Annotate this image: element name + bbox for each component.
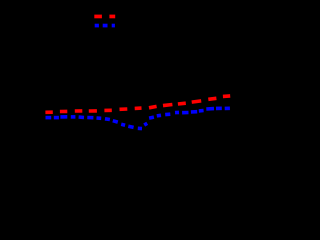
blue series dash 23 xyxy=(225,107,230,111)
red series dash 4 xyxy=(89,109,97,113)
legend: red series sample line xyxy=(94,15,102,19)
red series dash 12 xyxy=(208,98,216,99)
blue series dash 21 xyxy=(206,107,214,111)
blue series dash 13 xyxy=(144,123,147,125)
chart canvas xyxy=(0,0,244,208)
blue series dash 9 xyxy=(113,121,118,122)
red series dash 7 xyxy=(135,106,142,110)
blue series dash 16 xyxy=(165,112,170,116)
blue series dash 8 xyxy=(105,117,110,121)
blue series dash 19 xyxy=(191,110,197,114)
blue series dash 10 xyxy=(121,124,125,125)
blue series dash 11 xyxy=(128,126,133,127)
red series dash 10 xyxy=(178,101,186,105)
blue series dash 14 xyxy=(149,117,154,118)
blue series dash 7 xyxy=(97,116,102,120)
red series dash 5 xyxy=(104,109,111,113)
red series dash 9 xyxy=(163,105,172,106)
legend: blue series sample line xyxy=(95,24,99,28)
blue series dash 3 xyxy=(60,115,67,119)
red series dash 2 xyxy=(60,110,67,114)
blue series dash 18 xyxy=(182,111,188,115)
red series dash 3 xyxy=(75,109,83,113)
blue series dash 1 xyxy=(46,116,52,120)
blue series dash 22 xyxy=(216,107,222,111)
blue series dash 2 xyxy=(54,116,59,120)
blue series dash 6 xyxy=(87,116,93,120)
blue series dash 15 xyxy=(157,114,161,118)
blue series dash 5 xyxy=(79,115,84,119)
red series dash 8 xyxy=(149,106,157,107)
red series dash 6 xyxy=(120,107,128,111)
blue series dash 4 xyxy=(71,115,76,119)
red series dash 11 xyxy=(192,101,202,102)
red series dash 1 xyxy=(45,110,52,114)
blue series dash 12 xyxy=(138,127,142,131)
red series dash 13 xyxy=(223,94,230,98)
blue series dash 17 xyxy=(175,111,179,115)
blue series dash 20 xyxy=(199,109,204,113)
